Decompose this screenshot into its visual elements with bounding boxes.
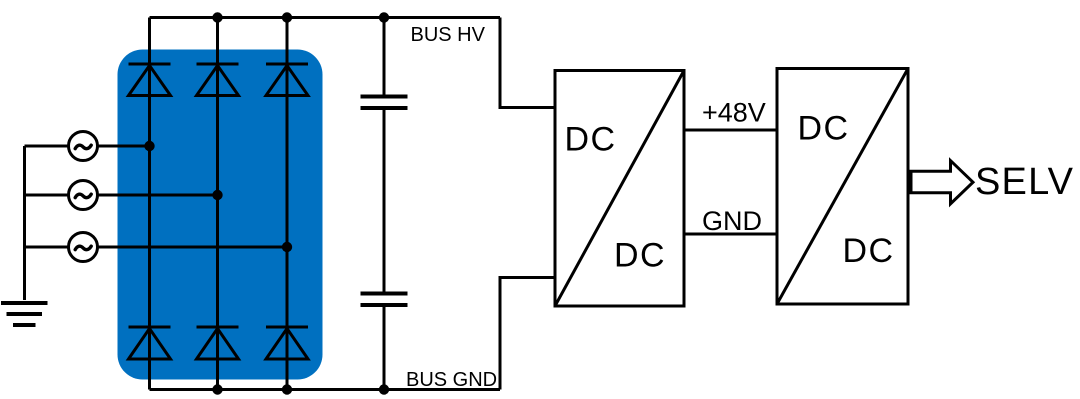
- wire: capacitor branch middle: [383, 108, 386, 294]
- svg-text:BUS HV: BUS HV: [411, 24, 486, 46]
- junction: leg 2 / top bus: [212, 12, 222, 22]
- svg-text:+48V: +48V: [702, 98, 766, 128]
- wire: phase B to leg 2: [25, 194, 218, 197]
- wire: phase C to leg 3: [25, 246, 288, 249]
- diode D1 (top, leg 1): [129, 64, 171, 96]
- wire: bottom bus BUS GND: [150, 388, 501, 391]
- svg-text:BUS GND: BUS GND: [406, 369, 497, 391]
- wire: BUS HV to converter input: [500, 18, 555, 108]
- svg-text:GND: GND: [702, 206, 762, 236]
- wire: capacitor branch upper: [383, 18, 386, 97]
- junction: leg 3 / bottom bus: [282, 384, 292, 394]
- junction: capacitor branch / top bus: [379, 12, 389, 22]
- wire: rectifier leg 1 vertical: [148, 18, 151, 390]
- svg-text:DC: DC: [843, 232, 895, 270]
- wire: capacitor branch lower: [383, 305, 386, 390]
- capacitor C1 (upper bus capacitor): [361, 97, 408, 109]
- AC source V3 (phase C): [69, 233, 98, 262]
- wire: top bus BUS HV: [150, 16, 501, 19]
- svg-text:DC: DC: [798, 110, 850, 148]
- junction: phase B / leg 2: [212, 190, 222, 200]
- diode D4 (bottom, leg 1): [129, 327, 171, 359]
- capacitor C2 (lower bus capacitor): [361, 294, 408, 306]
- wire: left vertical to ground: [23, 146, 26, 300]
- AC source V1 (phase A): [69, 132, 98, 161]
- junction: phase C / leg 3: [282, 242, 292, 252]
- wire: GND between converters: [684, 233, 777, 236]
- output arrow to SELV: [911, 161, 973, 204]
- op: DC/DC converter U1: [555, 71, 684, 307]
- diode D5 (bottom, leg 2): [197, 327, 239, 359]
- AC source V2 (phase B): [69, 181, 98, 210]
- junction: leg 3 / top bus: [282, 12, 292, 22]
- diode D3 (top, leg 3): [266, 64, 308, 96]
- wire: +48V between converters: [684, 129, 777, 132]
- diode D2 (top, leg 2): [197, 64, 239, 96]
- ground symbol: [1, 303, 48, 325]
- svg-text:DC: DC: [565, 121, 617, 159]
- op: DC/DC converter U2: [777, 69, 908, 305]
- wire: BUS GND to converter input: [500, 278, 555, 390]
- diode D6 (bottom, leg 3): [266, 327, 308, 359]
- rectifier block background (blue): [118, 50, 323, 380]
- svg-text:SELV: SELV: [975, 161, 1074, 203]
- wire: rectifier leg 3 vertical: [286, 18, 289, 390]
- junction: leg 2 / bottom bus: [212, 384, 222, 394]
- svg-text:DC: DC: [614, 237, 666, 275]
- wire: rectifier leg 2 vertical: [216, 18, 219, 390]
- junction: phase A / leg 1: [144, 141, 154, 151]
- junction: capacitor branch / bottom bus: [379, 384, 389, 394]
- wire: phase A to leg 1: [25, 145, 150, 148]
